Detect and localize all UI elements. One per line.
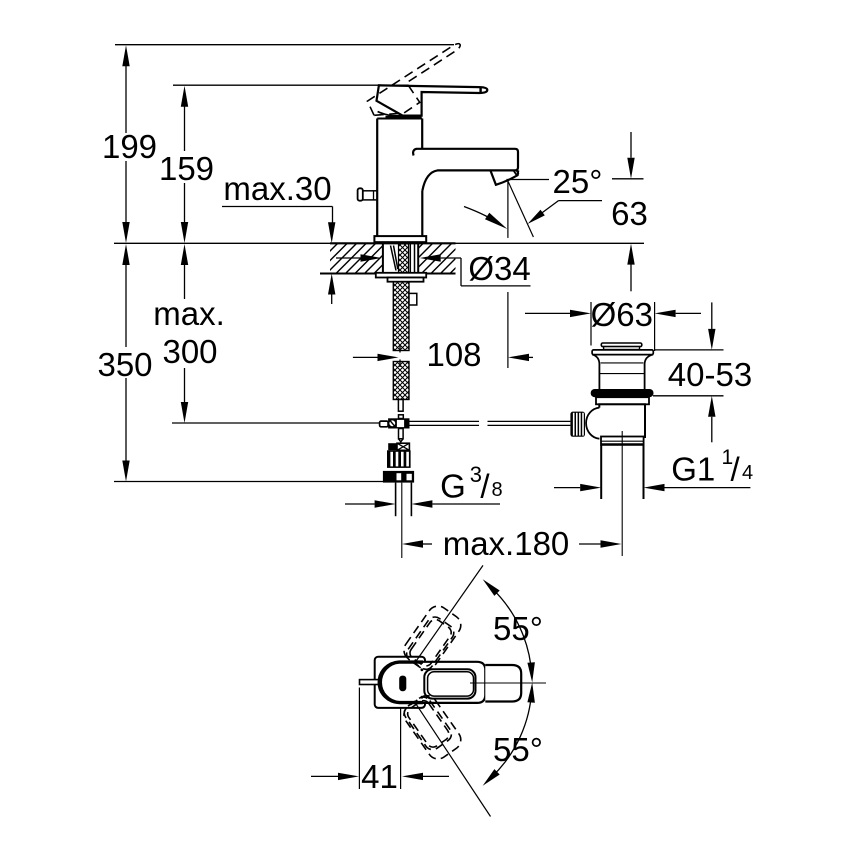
hose break tick upper (399, 345, 401, 353)
drain centerline (621, 431, 623, 556)
svg-text:G1: G1 (671, 451, 715, 488)
faucet lever handle (dashed, raised 33deg) (365, 40, 474, 127)
drain ball housing bulge (586, 408, 602, 439)
drain rod knurled nut (570, 412, 585, 437)
base plate heavy bottom edge (374, 241, 426, 244)
wire top reference line (raised lever tip level) (115, 44, 454, 46)
threaded shank braid (399, 244, 409, 273)
svg-text:159: 159 (159, 150, 214, 187)
wire spout tip extension line upper (507, 292, 509, 368)
wire 350 bottom reference line (114, 481, 383, 483)
G3/8 pipe left edge (395, 483, 397, 517)
plan pivot dot lower (421, 696, 424, 699)
stream swivel arc arrow (464, 207, 500, 225)
swing arc upper with arrows (492, 588, 532, 675)
svg-text:55°: 55° (493, 610, 543, 647)
wire pull rod left segment (172, 422, 380, 424)
plan lever dashed rotated -55 (400, 691, 465, 763)
dimension 350 (depth below deck) (122, 244, 129, 265)
faucet body column right edge upper (421, 119, 423, 149)
rod stub above clamp (399, 415, 404, 419)
svg-text:max.180: max.180 (443, 525, 570, 562)
svg-text:Ø34: Ø34 (468, 250, 530, 287)
deck hole left edge (382, 243, 384, 273)
svg-text:41: 41 (361, 758, 398, 795)
plan lever capsule (379, 662, 486, 703)
flexible hose upper section (393, 282, 409, 351)
wire pull rod tube to drain (upper line) (410, 420, 480, 422)
G3/8 pipe right edge (410, 483, 412, 517)
drain upper body right edge (644, 364, 646, 390)
svg-text:Ø63: Ø63 (591, 296, 653, 333)
svg-text:108: 108 (426, 336, 481, 373)
plan capsule heavy left arc (380, 662, 423, 703)
faucet body top edge (377, 118, 422, 120)
drain seal washer (596, 397, 649, 404)
plan pivot dot upper (421, 668, 424, 671)
dimension 199 (overall height) (122, 45, 129, 66)
svg-text:8: 8 (492, 479, 503, 501)
hose break tick lower (399, 360, 401, 368)
svg-text:55°: 55° (493, 731, 543, 768)
plan spout nose (485, 665, 521, 702)
shank curve line a (391, 246, 397, 271)
countertop slab bottom edge (320, 273, 456, 275)
hose coupling cap with cross (388, 443, 397, 450)
drain collar heavy bottom (601, 443, 644, 445)
dimension diameter 63 (drain flange) (590, 302, 592, 346)
plan handle black mark (399, 676, 406, 692)
cartridge dome under handle (378, 112, 403, 116)
svg-text:25°: 25° (553, 163, 603, 200)
drain shoulder right (645, 355, 654, 365)
mousseur tilted block (490, 170, 518, 184)
countertop hatching left of hole (298, 243, 443, 274)
shank curve line b (394, 246, 398, 270)
wire pull rod tube to drain (lower line) (410, 424, 480, 426)
plan upper 55 diagonal (417, 565, 484, 660)
flexible hose lower section (393, 362, 409, 400)
mousseur junction line a (514, 171, 518, 177)
knurled coupling body (387, 450, 411, 468)
dimension max.180 (drain offset) (402, 540, 423, 547)
rod ferrule (380, 421, 389, 427)
drain tailpipe right edge (643, 445, 645, 499)
rod lower stub (399, 429, 404, 439)
plan lower 55 diagonal (415, 703, 490, 817)
dimension 63 (outlet height) (630, 132, 632, 158)
countertop slab top edge (330, 242, 456, 244)
dimension max.300 (hose length) (181, 244, 188, 265)
svg-text:350: 350 (97, 346, 152, 383)
svg-text:/: / (731, 451, 741, 488)
plan horizontal centerline (470, 682, 546, 684)
pop-up pull rod knob (side view) (358, 188, 363, 200)
svg-text:40-53: 40-53 (668, 356, 752, 393)
dimension G3/8 (supply thread) (345, 503, 375, 505)
wire countertop reference line (114, 242, 644, 244)
faucet body column left edge (376, 119, 378, 237)
svg-text:199: 199 (102, 128, 157, 165)
drain collar (601, 437, 644, 445)
spout stream incline line (508, 181, 534, 237)
dimension G1 1/4 (drain thread) (554, 487, 580, 489)
drain push cap lip (604, 347, 640, 350)
plan pull rod (360, 680, 380, 685)
wire lever-top reference line (159 level) (173, 84, 409, 86)
spout arm outline (413, 149, 518, 191)
dimension 108 (spout projection) (353, 356, 378, 358)
dimension 41 (rod offset) (358, 688, 360, 790)
deck hole right edge (417, 243, 419, 273)
mousseur junction line b (516, 171, 518, 175)
lever tip detail tick (479, 87, 481, 93)
drain push cap (601, 343, 642, 347)
drain upper body hairline b (599, 373, 644, 375)
dimension 40-53 (basin clamp range) (711, 302, 713, 329)
plan body square (375, 657, 425, 708)
mounting washer (376, 273, 426, 278)
handle-body joint heavy line (386, 116, 422, 119)
drain upper body hairline a (601, 362, 644, 364)
drain tailpipe left edge (600, 445, 602, 499)
countertop hatching right of hole (374, 243, 519, 274)
svg-text:4: 4 (742, 462, 753, 484)
svg-text:G: G (440, 468, 466, 505)
faucet supply centerline (401, 483, 403, 558)
drain shoulder left (592, 355, 599, 365)
drain body (599, 404, 645, 437)
pull rod clamp block (388, 418, 409, 428)
hose end tube (398, 400, 403, 412)
svg-text:/: / (480, 468, 490, 505)
shank right wall line b (414, 244, 416, 273)
wire spout tip vertical extension (507, 181, 509, 238)
base plate (374, 236, 426, 242)
faucet body column right edge lower (421, 191, 423, 237)
shank right wall line a (409, 244, 411, 273)
svg-text:max.: max. (153, 295, 225, 332)
hose side nipple (409, 293, 417, 305)
swing arc lower with arrows (492, 689, 532, 776)
mounting nut (388, 278, 424, 282)
dimension diameter 34 (deck hole) (336, 257, 361, 259)
G3/8 hex nut (383, 471, 414, 483)
drain upper body left edge (598, 364, 600, 390)
drain O-ring seal (591, 389, 654, 397)
svg-text:63: 63 (611, 195, 648, 232)
faucet lever handle (solid, rest position) (377, 85, 488, 115)
drain collar inner line (601, 440, 644, 442)
svg-text:300: 300 (162, 333, 217, 370)
dimension 159 (spout height level) (181, 86, 188, 107)
drain flange (592, 350, 653, 355)
rod centerline tick (400, 442, 402, 444)
plan lever dashed rotated +55 (400, 602, 465, 674)
svg-text:max.30: max.30 (223, 170, 331, 207)
plan lever window inner (428, 672, 474, 696)
plan lever window outer (424, 669, 475, 698)
